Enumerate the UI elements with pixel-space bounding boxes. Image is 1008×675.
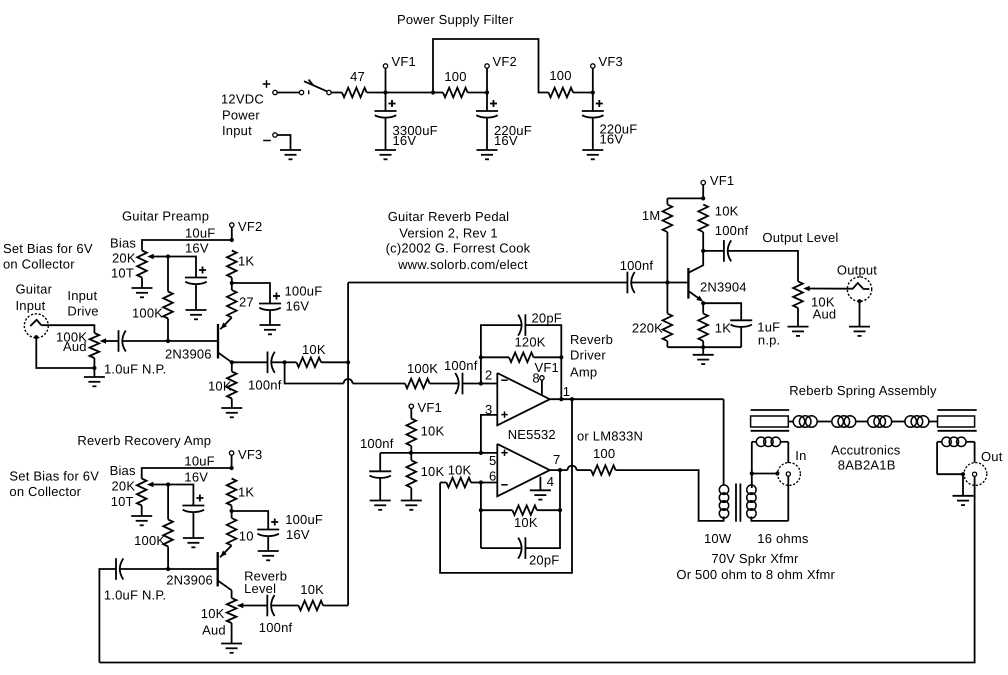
svg-text:20pF: 20pF	[529, 553, 559, 568]
svg-text:16V: 16V	[185, 241, 209, 256]
svg-text:VF3: VF3	[238, 447, 262, 462]
svg-text:16 ohms: 16 ohms	[757, 531, 809, 546]
resistor 1K (emitter)	[702, 303, 704, 313]
wire op2 feedback loop	[440, 399, 572, 573]
svg-text:10K: 10K	[715, 203, 739, 218]
net VF1 terminal	[385, 68, 387, 90]
potentiometer Reverb Level 10K Aud	[231, 590, 233, 598]
svg-text:on Collector: on Collector	[3, 257, 75, 272]
ground	[260, 324, 281, 326]
svg-text:4: 4	[547, 474, 554, 489]
wire	[331, 92, 342, 94]
svg-text:1M: 1M	[642, 208, 660, 223]
wire	[36, 337, 94, 368]
svg-text:10K: 10K	[421, 464, 445, 479]
output transducer coil	[937, 441, 942, 443]
svg-text:10K: 10K	[514, 515, 538, 530]
svg-text:Out: Out	[981, 449, 1003, 464]
net VF3 terminal at recovery amp	[229, 451, 233, 455]
resistor 100 (second)	[549, 88, 574, 98]
svg-text:Aud: Aud	[63, 339, 87, 354]
junction op2 output	[558, 468, 562, 472]
svg-text:Power: Power	[222, 108, 260, 123]
svg-text:1: 1	[563, 384, 570, 399]
node VF3 junction	[591, 90, 595, 94]
svg-text:n.p.: n.p.	[758, 333, 780, 348]
resistor 10K (bias divider top)	[410, 409, 412, 419]
junction op-amp inverting input node	[479, 381, 483, 385]
resistor 100K (recovery bias)	[167, 485, 169, 520]
svg-text:100K: 100K	[132, 306, 163, 321]
op-amp U1B NE5532 (reverb driver 2)	[497, 444, 550, 496]
svg-text:20K: 20K	[112, 479, 136, 494]
wire	[573, 92, 593, 94]
svg-text:16V: 16V	[286, 299, 310, 314]
svg-text:2: 2	[485, 368, 492, 383]
wire In jack tip down	[787, 476, 789, 521]
potentiometer Input Drive 100K Aud	[90, 333, 100, 358]
svg-text:Set Bias for 6V: Set Bias for 6V	[3, 241, 93, 256]
wire	[468, 92, 487, 94]
ground	[186, 309, 207, 311]
svg-text:100nf: 100nf	[444, 358, 478, 373]
svg-text:70V Spkr Xfmr: 70V Spkr Xfmr	[711, 551, 799, 566]
node VF2 junction	[485, 90, 489, 94]
junction node mix bus	[346, 360, 350, 364]
ground	[530, 489, 551, 491]
svg-text:12VDC: 12VDC	[221, 92, 264, 107]
svg-text:100nf: 100nf	[360, 436, 394, 451]
svg-text:10K: 10K	[421, 424, 445, 439]
ground	[258, 550, 279, 552]
transducer block output	[938, 409, 977, 411]
net VF3 terminal	[592, 68, 594, 90]
svg-text:10K: 10K	[448, 463, 472, 478]
capacitor 100nf (preamp output)	[267, 352, 269, 374]
svg-text:Level: Level	[244, 581, 276, 596]
junction	[701, 345, 705, 349]
capacitor 1.0uF N.P. (preamp input)	[118, 330, 120, 352]
resistor 47	[342, 88, 367, 98]
ground	[477, 149, 498, 151]
wire	[168, 257, 196, 278]
wire preamp supply rail	[142, 240, 232, 251]
wire feedback left vertical	[481, 325, 522, 383]
svg-text:10K: 10K	[302, 342, 326, 357]
svg-text:In: In	[795, 448, 806, 463]
junction	[479, 355, 483, 359]
svg-text:10K: 10K	[300, 582, 324, 597]
svg-text:100nf: 100nf	[715, 223, 749, 238]
svg-text:7: 7	[553, 452, 560, 467]
ground	[221, 643, 242, 645]
wire	[631, 282, 688, 284]
wire Out jack tip to recovery amp (bottom bus)	[99, 476, 974, 662]
wire	[232, 511, 269, 530]
junction	[230, 509, 234, 513]
wire pin5	[481, 452, 497, 454]
svg-text:100nf: 100nf	[259, 620, 293, 635]
resistor 100 (to transformer)	[591, 465, 616, 475]
svg-text:1.0uF N.P.: 1.0uF N.P.	[104, 588, 166, 603]
capacitor 3300uF 16V	[385, 93, 387, 112]
resistor 1K (preamp collector load)	[227, 251, 237, 278]
svg-text:16V: 16V	[600, 132, 624, 147]
ground	[370, 500, 391, 502]
ground	[788, 326, 809, 328]
capacitor 100nf (driver input)	[462, 373, 464, 395]
wire	[168, 485, 193, 506]
resistor 1M	[666, 198, 668, 204]
wire bias feed	[380, 452, 481, 454]
ground	[183, 537, 204, 539]
resistor 100K (preamp bias)	[167, 257, 169, 292]
wire	[525, 325, 561, 399]
wire	[93, 368, 95, 377]
svg-text:www.solorb.com/elect: www.solorb.com/elect	[397, 257, 528, 272]
svg-text:2N3906: 2N3906	[166, 573, 213, 588]
transducer block input	[751, 409, 790, 411]
wire reverb mix bus to 100nf	[348, 282, 627, 284]
svg-text:100K: 100K	[134, 533, 165, 548]
ground	[375, 149, 396, 151]
trimpot Bias 20K 10T	[137, 251, 147, 278]
svg-text:Output Level: Output Level	[762, 230, 838, 245]
svg-text:Guitar Preamp: Guitar Preamp	[122, 209, 209, 224]
svg-text:16V: 16V	[286, 527, 310, 542]
resistor 10 (recovery emitter)	[231, 511, 233, 518]
ground	[221, 407, 242, 409]
capacitor 1.0uF N.P. (recovery input)	[115, 558, 117, 580]
svg-text:10K: 10K	[208, 379, 232, 394]
capacitor 100nf (output coupling)	[703, 250, 724, 252]
wire pin3	[481, 415, 497, 453]
wire	[232, 361, 268, 363]
svg-text:on Collector: on Collector	[9, 484, 81, 499]
junction jack sleeve	[857, 299, 861, 303]
junction	[775, 471, 779, 475]
svg-text:1K: 1K	[238, 485, 254, 500]
node VF1 junction	[383, 90, 387, 94]
ground	[280, 149, 301, 151]
transistor Q1 2N3906	[217, 324, 219, 359]
svg-text:100nf: 100nf	[248, 378, 282, 393]
capacitor 20pF (driver feedback)	[524, 314, 526, 336]
capacitor 100nf (mix bus to base)	[626, 272, 628, 294]
svg-text:47: 47	[350, 69, 365, 84]
svg-text:10uF: 10uF	[185, 226, 215, 241]
svg-text:100nf: 100nf	[620, 258, 654, 273]
svg-text:100uF: 100uF	[285, 284, 323, 299]
capacitor 1uF n.p.	[703, 303, 741, 320]
wire	[859, 301, 861, 326]
svg-text:VF2: VF2	[493, 54, 517, 69]
capacitor 220uF 16V (first)	[486, 93, 488, 112]
junction	[701, 249, 705, 253]
resistor 10K (op2 feedback)	[481, 509, 513, 511]
junction	[92, 366, 96, 370]
junction	[166, 482, 170, 486]
svg-text:10uF: 10uF	[184, 454, 214, 469]
wire reverb mix bus vertical	[347, 283, 349, 606]
junction bias node	[409, 451, 413, 455]
ground	[84, 376, 105, 378]
svg-text:2N3906: 2N3906	[165, 347, 212, 362]
wire to output level pot	[728, 251, 798, 282]
jack Guitar Input	[24, 314, 48, 338]
net VF1 terminal at output stage	[701, 180, 705, 184]
input transducer coil	[752, 441, 757, 443]
resistor 10K (op2 input)	[440, 482, 446, 484]
switch S1	[299, 90, 303, 94]
transistor Q3 2N3904	[687, 268, 689, 299]
svg-text:220K: 220K	[632, 320, 663, 335]
wire	[751, 474, 753, 489]
svg-text:100: 100	[444, 69, 466, 84]
svg-text:Set Bias for 6V: Set Bias for 6V	[9, 469, 99, 484]
svg-text:100: 100	[549, 68, 571, 83]
svg-text:VF1: VF1	[710, 173, 734, 188]
svg-text:Reberb Spring Assembly: Reberb Spring Assembly	[789, 383, 937, 398]
junction	[558, 508, 562, 512]
wire emitter ground rail	[667, 346, 741, 348]
wire	[752, 473, 778, 475]
wire	[277, 92, 299, 94]
op-amp U1A NE5532 (reverb driver)	[497, 373, 550, 425]
svg-text:Guitar Reverb Pedal: Guitar Reverb Pedal	[388, 209, 510, 224]
junction jack sleeve	[34, 335, 38, 339]
junction	[166, 339, 170, 343]
junction	[431, 90, 435, 94]
junction	[570, 397, 574, 401]
wire	[41, 325, 94, 333]
svg-text:1K: 1K	[238, 254, 254, 269]
svg-text:Bias: Bias	[110, 236, 136, 251]
potentiometer Output Level 10K Aud	[793, 281, 803, 308]
junction	[166, 567, 170, 571]
svg-text:20K: 20K	[112, 251, 136, 266]
resistor 120K (driver feedback)	[481, 356, 509, 358]
wire preamp base	[122, 340, 218, 342]
capacitor 10uF 16V	[185, 277, 207, 279]
wire	[463, 383, 498, 385]
svg-text:Power Supply Filter: Power Supply Filter	[397, 12, 514, 27]
svg-text:Input: Input	[222, 123, 252, 138]
svg-text:1K: 1K	[715, 320, 731, 335]
svg-text:10K: 10K	[201, 606, 225, 621]
junction emitter node	[701, 301, 705, 305]
wire pin6	[481, 482, 497, 484]
wire to transformer primary	[616, 470, 724, 521]
net VF2 terminal	[486, 68, 488, 90]
junction	[479, 480, 483, 484]
svg-text:10W: 10W	[704, 531, 732, 546]
svg-text:VF1: VF1	[418, 400, 442, 415]
net VF2 terminal at preamp	[230, 223, 234, 227]
svg-text:120K: 120K	[515, 334, 546, 349]
wire op2 output with hop	[550, 469, 568, 471]
ground	[401, 500, 422, 502]
svg-text:Guitar: Guitar	[16, 282, 53, 297]
wire	[937, 473, 963, 475]
capacitor 100nf (reverb level out)	[266, 595, 268, 617]
wire	[277, 135, 290, 150]
ground	[132, 287, 153, 289]
wire	[271, 361, 284, 363]
svg-text:Driver: Driver	[570, 348, 606, 363]
junction	[961, 472, 965, 476]
wire	[559, 470, 561, 510]
ground	[693, 354, 714, 356]
svg-text:Aud: Aud	[202, 623, 226, 638]
svg-text:10: 10	[239, 528, 254, 543]
capacitor 100nf (bias bypass)	[379, 453, 381, 471]
plus terminal of 12VDC input	[263, 83, 271, 85]
wire dry signal to driver with hop over bus	[285, 362, 344, 383]
svg-text:(c)2002 G. Forrest Cook: (c)2002 G. Forrest Cook	[386, 241, 531, 256]
transformer T1 primary winding	[719, 485, 728, 494]
wire	[702, 347, 704, 355]
spring coils	[788, 421, 793, 423]
wire op2 feedback vertical	[480, 483, 482, 549]
wire from bottom bus to recovery input	[99, 569, 116, 663]
wire	[232, 283, 270, 304]
svg-text:Accutronics: Accutronics	[831, 443, 901, 458]
svg-text:Amp: Amp	[570, 365, 597, 380]
svg-text:Drive: Drive	[67, 304, 98, 319]
ground	[582, 149, 603, 151]
transformer T1 secondary winding	[747, 485, 756, 494]
junction	[230, 238, 234, 242]
junction	[283, 360, 287, 364]
jack Output	[847, 277, 871, 301]
ground	[953, 495, 974, 497]
svg-text:6: 6	[489, 469, 496, 484]
svg-text:Input: Input	[16, 298, 46, 313]
junction	[230, 466, 234, 470]
svg-text:2N3904: 2N3904	[700, 279, 747, 294]
svg-text:27: 27	[239, 295, 254, 310]
jack Out	[964, 463, 987, 486]
svg-text:10T: 10T	[111, 266, 134, 281]
svg-text:100uF: 100uF	[285, 512, 323, 527]
svg-text:8AB2A1B: 8AB2A1B	[838, 457, 896, 472]
wire	[962, 474, 964, 496]
transistor Q2 2N3906 (recovery)	[217, 552, 219, 587]
junction	[559, 355, 563, 359]
wire recovery base	[120, 568, 218, 570]
transformer core	[735, 484, 737, 522]
svg-text:VF3: VF3	[599, 54, 623, 69]
jack In	[778, 463, 801, 486]
svg-text:Output: Output	[837, 263, 877, 278]
junction	[750, 471, 754, 475]
wire recovery supply rail	[142, 468, 232, 479]
junction	[230, 281, 234, 285]
resistor 10K (preamp emitter... collector load to ground)	[231, 362, 233, 371]
junction	[479, 508, 483, 512]
svg-text:Input: Input	[67, 288, 97, 303]
svg-text:1.0uF N.P.: 1.0uF N.P.	[104, 362, 166, 377]
svg-text:VF2: VF2	[238, 219, 262, 234]
net VF1 terminal bias divider	[409, 404, 413, 408]
ground	[131, 515, 152, 517]
svg-text:VF1: VF1	[535, 360, 559, 375]
capacitor 220uF 16V (second)	[592, 93, 594, 112]
junction	[230, 360, 234, 364]
svg-text:16V: 16V	[393, 133, 417, 148]
resistor 10K (to reverb mix bus)	[285, 361, 297, 363]
svg-text:Or 500 ohm to 8 ohm Xfmr: Or 500 ohm to 8 ohm Xfmr	[676, 567, 835, 582]
svg-text:16V: 16V	[184, 470, 208, 485]
svg-text:100K: 100K	[407, 361, 438, 376]
wire secondary bottom to In jack tip	[751, 516, 788, 521]
junction	[166, 254, 170, 258]
svg-text:5: 5	[489, 453, 496, 468]
wire	[367, 92, 433, 94]
wire	[667, 197, 703, 199]
junction	[701, 196, 705, 200]
resistor 100K (driver input)	[405, 379, 430, 389]
svg-text:Reverb: Reverb	[570, 332, 613, 347]
wire driver output to primary	[723, 399, 725, 485]
svg-text:10T: 10T	[111, 494, 134, 509]
resistor 100 (first)	[443, 88, 468, 98]
svg-text:NE5532: NE5532	[508, 427, 556, 442]
capacitor 100uF 16V (recovery)	[257, 529, 279, 531]
svg-text:Reverb Recovery Amp: Reverb Recovery Amp	[77, 433, 211, 448]
resistor 1K (recovery collector load)	[227, 479, 237, 506]
junction	[665, 280, 669, 284]
resistor 10K (bias divider bottom)	[407, 460, 417, 487]
svg-text:VF1: VF1	[392, 54, 416, 69]
svg-text:Aud: Aud	[813, 307, 837, 322]
wire	[433, 92, 443, 94]
svg-text:or LM833N: or LM833N	[577, 429, 643, 444]
svg-text:Bias: Bias	[110, 463, 136, 478]
resistor 220K	[666, 283, 668, 314]
trimpot Bias 20K 10T (recovery)	[137, 479, 147, 506]
capacitor 20pF (op2 feedback)	[481, 547, 522, 549]
junction driver output	[559, 397, 563, 401]
svg-text:20pF: 20pF	[532, 310, 562, 325]
wire driver output	[550, 398, 724, 400]
wire bridge over first filter stage	[433, 39, 549, 93]
junction	[479, 451, 483, 455]
ground	[849, 326, 870, 328]
capacitor 10uF 16V (recovery)	[182, 505, 204, 507]
resistor 10K (reverb return)	[271, 605, 298, 607]
capacitor 100uF 16V (preamp)	[259, 303, 281, 305]
svg-text:100: 100	[593, 446, 615, 461]
minus terminal of 12VDC input	[263, 140, 271, 142]
resistor 10K (output collector load)	[698, 205, 708, 233]
svg-text:Version 2, Rev 1: Version 2, Rev 1	[399, 225, 498, 240]
resistor 27	[231, 283, 233, 290]
svg-text:16V: 16V	[494, 133, 518, 148]
